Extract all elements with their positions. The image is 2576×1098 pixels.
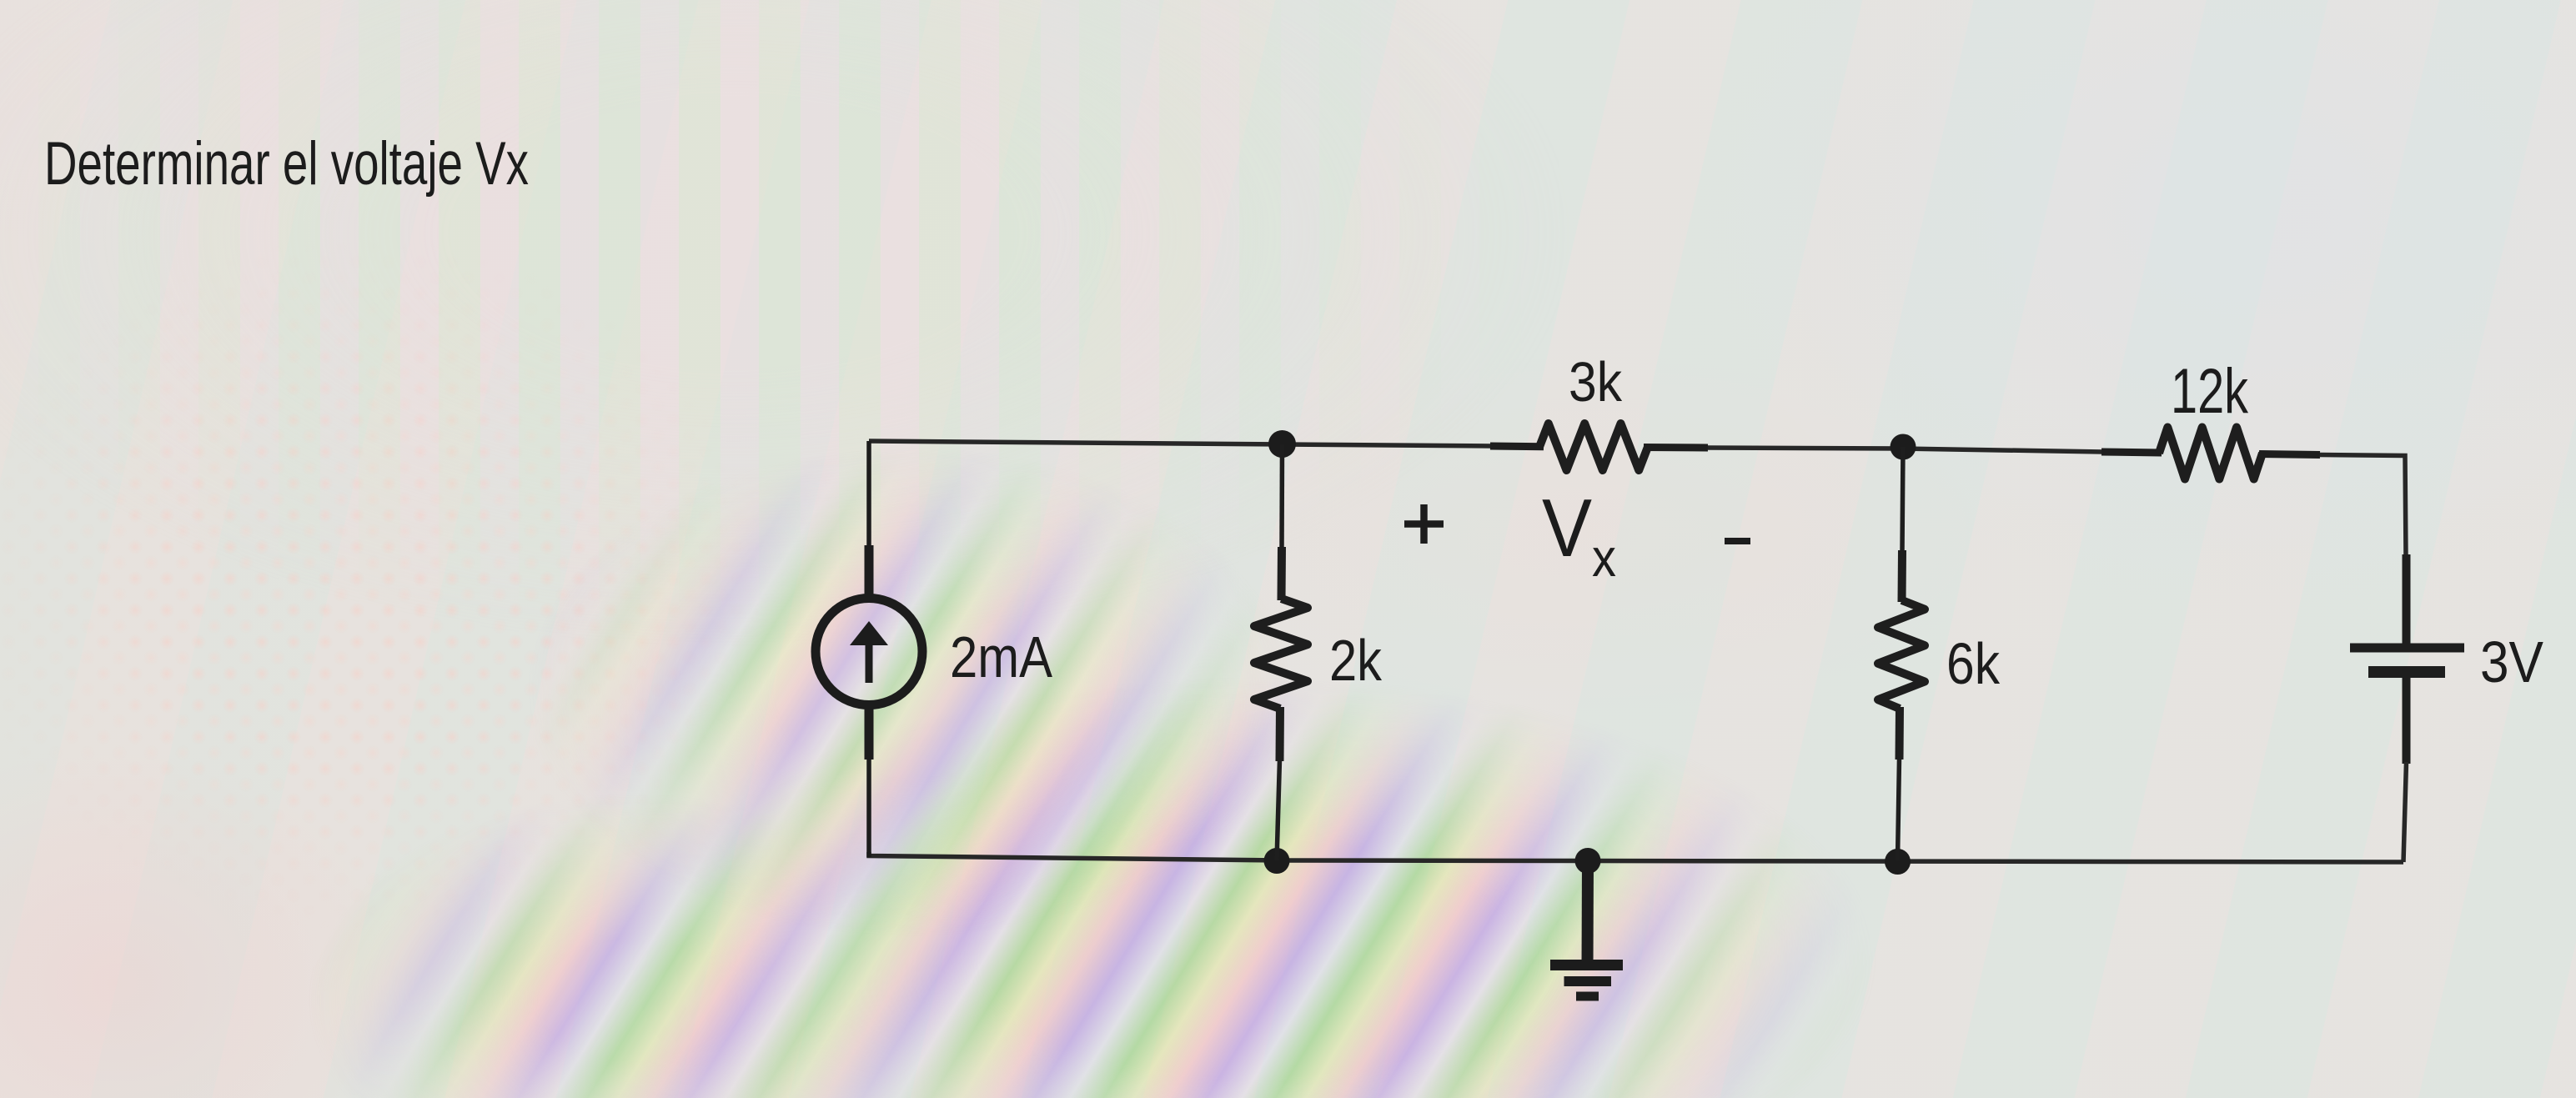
svg-text:12k: 12k — [2171, 356, 2249, 427]
wire: top rail, top-left corner to node A — [869, 441, 1283, 444]
junction node C (ground) — [1575, 848, 1601, 874]
svg-text:V: V — [1542, 482, 1592, 574]
resistor R1 3k (horizontal) — [1490, 424, 1708, 470]
wire: right rail bottom, battery to bottom-right corner — [2403, 762, 2407, 862]
svg-text:x: x — [1592, 528, 1616, 588]
wire: top rail, 3k to node B — [1708, 448, 2103, 452]
junction node A (2k top) — [1268, 430, 1296, 458]
resistor R2 12k (horizontal) — [2101, 428, 2320, 479]
svg-text:2k: 2k — [1329, 628, 1383, 693]
wire: top rail, 12k to top-right corner — [2320, 455, 2406, 558]
svg-text:3k: 3k — [1569, 351, 1622, 414]
junction node E (6k bottom) — [1885, 849, 1911, 875]
junction node D (2k bottom) — [1264, 848, 1290, 874]
resistor R4 6k (vertical) — [1878, 447, 1925, 860]
current source I1 2mA — [816, 441, 922, 857]
label minus sign of Vx — [1725, 538, 1750, 544]
junction node B (6k top) — [1891, 434, 1916, 460]
svg-text:6k: 6k — [1946, 631, 2001, 696]
wire: top rail, node A to resistor 3k — [1283, 444, 1493, 446]
svg-text:Determinar el voltaje Vx: Determinar el voltaje Vx — [44, 130, 529, 198]
label plus sign of Vx — [1404, 504, 1444, 544]
wire: bottom rail — [869, 852, 2403, 862]
resistor R3 2k (vertical) — [1254, 444, 1308, 860]
svg-text:3V: 3V — [2480, 629, 2543, 694]
current source arrowhead — [850, 621, 888, 645]
battery V1 3V — [2350, 554, 2464, 764]
svg-text:2mA: 2mA — [950, 624, 1052, 689]
ground — [1550, 860, 1623, 996]
